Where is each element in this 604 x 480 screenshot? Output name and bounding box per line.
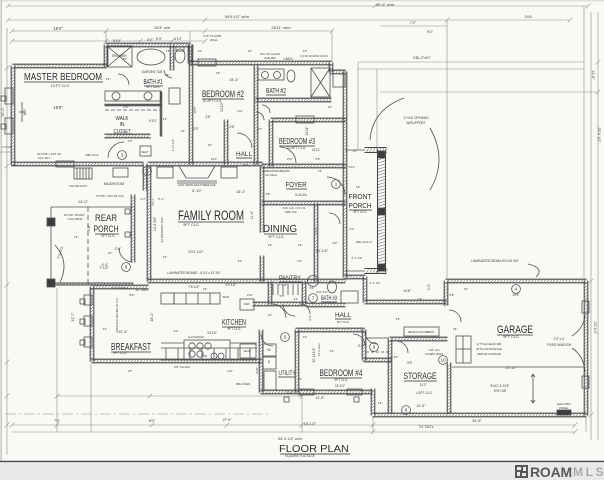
circle note 3 <box>118 151 127 160</box>
svg-text:IN: IN <box>120 122 125 128</box>
wall bath block step right <box>188 45 192 64</box>
room label BEDROOM 4 <box>320 368 363 378</box>
svg-text:2'2": 2'2" <box>174 329 179 333</box>
svg-text:10: 10 <box>440 358 446 363</box>
door arc storage <box>396 341 408 353</box>
tick marks bottom <box>10 394 578 435</box>
svg-text:3'6": 3'6" <box>298 243 303 247</box>
door arc bed4 <box>365 332 377 344</box>
window breakfast 3 <box>84 337 92 347</box>
svg-text:3'-0": 3'-0" <box>308 315 312 321</box>
room label HALL lower <box>335 313 352 319</box>
svg-text:1'6": 1'6" <box>128 139 133 143</box>
svg-text:ABOVE GARAGE: ABOVE GARAGE <box>477 352 501 356</box>
svg-text:6'4": 6'4" <box>156 37 163 41</box>
svg-text:MUDROOM: MUDROOM <box>104 182 124 186</box>
dimension line top second <box>8 19 570 21</box>
dimension line bottom 1 <box>12 424 575 426</box>
svg-text:PANEL: PANEL <box>560 406 569 410</box>
svg-text:11'-6": 11'-6" <box>250 210 254 219</box>
room label BATH 1 <box>144 79 164 86</box>
svg-text:11'-5": 11'-5" <box>315 396 325 400</box>
svg-text:3'6": 3'6" <box>229 125 234 129</box>
attic stairs <box>74 168 92 179</box>
svg-text:BATH #2: BATH #2 <box>266 88 286 95</box>
door arc bed3 <box>280 147 296 163</box>
svg-text:12'-4": 12'-4" <box>118 330 128 334</box>
svg-text:LAMINATED BEAMS - 8 1/2 x 15 3: LAMINATED BEAMS - 8 1/2 x 15 3/4" <box>167 271 220 275</box>
svg-text:9FT CLG: 9FT CLG <box>503 335 519 339</box>
front porch top line <box>345 149 365 151</box>
svg-text:49'-6" w/m: 49'-6" w/m <box>376 2 395 7</box>
svg-text:3'0": 3'0" <box>103 327 108 331</box>
svg-text:4'-0": 4'-0" <box>140 197 146 201</box>
kitchen island <box>184 340 230 360</box>
svg-text:16'4": 16'4" <box>53 26 63 31</box>
svg-text:DBL 2x10 w/: DBL 2x10 w/ <box>356 240 372 244</box>
svg-text:STORAGE: STORAGE <box>404 371 437 382</box>
svg-text:20'6": 20'6" <box>512 293 519 297</box>
title FLOOR PLAN <box>279 443 350 455</box>
svg-text:17'x16' OPENING: 17'x16' OPENING <box>403 116 429 120</box>
svg-text:FAMILY ROOM: FAMILY ROOM <box>178 208 244 223</box>
dimension line top outer <box>8 5 588 7</box>
toilet master wc <box>175 47 185 63</box>
svg-text:4'6": 4'6" <box>205 115 210 119</box>
svg-text:9FT CLG: 9FT CLG <box>334 378 348 382</box>
svg-text:34'-0 1/2" w/m: 34'-0 1/2" w/m <box>278 437 302 441</box>
wall divider master-bed2 <box>189 45 193 164</box>
wall family west <box>147 166 151 281</box>
footer bar <box>0 462 604 480</box>
dimension line right vertical 1 <box>590 12 592 440</box>
svg-text:3'6": 3'6" <box>106 77 111 81</box>
extension line x106 <box>105 31 107 45</box>
svg-text:5'10": 5'10" <box>113 39 122 43</box>
extension line right house vert <box>583 6 585 278</box>
svg-text:6: 6 <box>405 408 408 413</box>
wall pantry west <box>268 282 272 304</box>
svg-text:KITCHEN: KITCHEN <box>222 317 246 327</box>
leader opening arc2 <box>430 128 439 190</box>
svg-text:LITTLE HEAD RM: LITTLE HEAD RM <box>477 342 502 346</box>
svg-text:2'0": 2'0" <box>193 127 198 131</box>
bookcase right <box>221 167 237 178</box>
porch column 2 <box>47 279 55 287</box>
toilet bath2 <box>287 70 295 82</box>
front porch colonnade band <box>378 150 386 272</box>
circle note 9 <box>370 343 379 352</box>
linen cabinet <box>169 88 180 104</box>
door arc bath1 <box>118 74 129 85</box>
extension line front colonnade a <box>357 62 359 150</box>
svg-text:3'0": 3'0" <box>333 241 338 245</box>
wall kitchen-pantry divider <box>253 302 307 306</box>
svg-text:2'8": 2'8" <box>216 71 221 75</box>
svg-text:6'0": 6'0" <box>124 105 129 109</box>
svg-text:3'6": 3'6" <box>378 401 383 405</box>
svg-text:12'10": 12'10" <box>220 101 224 112</box>
svg-text:13 FT CLG: 13 FT CLG <box>51 84 70 88</box>
svg-text:DBL-2"x10": DBL-2"x10" <box>413 56 431 60</box>
walkway arc <box>55 245 64 282</box>
svg-text:GAS RANGE: GAS RANGE <box>188 335 204 339</box>
svg-text:15'9": 15'9" <box>53 105 63 110</box>
wall wic east <box>160 92 161 136</box>
svg-text:DW: DW <box>203 354 208 358</box>
svg-text:5'4": 5'4" <box>394 355 399 359</box>
dimension line top fourth <box>12 40 205 42</box>
fireplace <box>177 166 217 183</box>
dimension line left vertical <box>6 28 8 455</box>
svg-text:PORCH: PORCH <box>349 201 372 210</box>
door arc powder <box>300 304 310 314</box>
room label BREAKFAST <box>111 341 151 353</box>
circle note 1 <box>332 180 341 189</box>
svg-text:6'0": 6'0" <box>149 419 156 423</box>
svg-text:7'6 1/2": 7'6 1/2" <box>188 285 200 289</box>
dimension line bottom mid <box>57 395 302 397</box>
svg-text:ATTIC ENTRANCE: ATTIC ENTRANCE <box>476 347 502 351</box>
room label STORAGE <box>404 371 438 382</box>
extension line x586 bottom <box>585 417 587 432</box>
svg-text:13'-7": 13'-7" <box>71 312 75 322</box>
svg-text:DBL OVEN: DBL OVEN <box>236 382 251 386</box>
svg-text:13'6": 13'6" <box>403 289 412 293</box>
dim line left stub <box>0 151 13 153</box>
door arc closet a <box>256 112 264 120</box>
svg-text:1'6": 1'6" <box>74 235 79 239</box>
sink master 1 <box>112 92 120 100</box>
svg-text:5'0": 5'0" <box>123 57 128 61</box>
extension line garage corner vert <box>446 20 448 278</box>
svg-text:4: 4 <box>515 287 518 292</box>
window master left 1 <box>5 88 13 104</box>
wall bath1 vanity south <box>105 104 161 105</box>
svg-text:15'-4": 15'-4" <box>229 78 239 82</box>
svg-text:15'-2": 15'-2" <box>1 107 5 117</box>
window master left 2 <box>5 118 13 134</box>
wall hall south <box>296 328 365 332</box>
svg-text:10-9FT CLG: 10-9FT CLG <box>203 99 222 103</box>
svg-text:3'4": 3'4" <box>268 313 273 317</box>
svg-text:CASED OPEN: CASED OPEN <box>425 352 443 356</box>
window garage right 1 <box>582 301 589 313</box>
svg-text:25'-6 1/2": 25'-6 1/2" <box>597 127 601 143</box>
scan edge artifact top <box>0 0 604 2</box>
door arc pantry <box>272 304 286 318</box>
footer top border <box>0 460 604 462</box>
room label FOYER <box>286 180 308 189</box>
svg-text:UTILITY: UTILITY <box>279 371 296 377</box>
svg-text:WALL: WALL <box>210 38 218 42</box>
svg-text:4'-11 1/2": 4'-11 1/2" <box>171 139 175 151</box>
scan edge artifact left <box>0 0 2 462</box>
svg-text:12'11": 12'11" <box>312 148 321 152</box>
svg-text:1'10": 1'10" <box>227 369 233 373</box>
svg-text:2'-6": 2'-6" <box>115 247 123 251</box>
svg-text:9'-6": 9'-6" <box>87 224 91 232</box>
circle note 6 <box>402 406 411 415</box>
porch column front 2 <box>378 208 385 215</box>
window master bottom <box>56 161 74 167</box>
circle note 7 <box>309 294 318 303</box>
circle note 4 <box>512 285 521 294</box>
circle note 2 <box>143 167 152 176</box>
svg-text:(4) 3/4 ROUND COLS: (4) 3/4 ROUND COLS <box>300 54 328 58</box>
room label FRONT PORCH <box>349 192 372 201</box>
svg-text:3-2x10's: 3-2x10's <box>295 193 307 197</box>
svg-text:6'0": 6'0" <box>147 38 154 42</box>
svg-text:5'0 5/8 x 12'0 3/4 CLG: 5'0 5/8 x 12'0 3/4 CLG <box>96 194 124 198</box>
wall garage entry left <box>444 281 448 306</box>
cooktop burners <box>189 343 211 357</box>
wall mudroom-family <box>143 164 147 190</box>
front porch top band <box>365 148 387 153</box>
coat closet box <box>113 168 128 177</box>
porch column line <box>50 207 52 285</box>
svg-text:5'2": 5'2" <box>244 163 249 167</box>
svg-text:9'2": 9'2" <box>427 30 434 34</box>
door arc front door <box>327 177 345 195</box>
window garage right 2 <box>582 376 589 388</box>
window label B8 <box>125 209 130 214</box>
svg-text:2'10": 2'10" <box>287 157 293 161</box>
svg-text:DBL 2x6: DBL 2x6 <box>285 210 297 214</box>
svg-text:8'x12' & 12'8": 8'x12' & 12'8" <box>490 384 509 388</box>
room label REAR <box>95 213 117 223</box>
svg-text:1'8": 1'8" <box>356 185 361 189</box>
room label FAMILY ROOM <box>178 208 244 223</box>
kitchen counter north <box>161 293 174 304</box>
svg-text:6'-10": 6'-10" <box>192 189 202 193</box>
svg-text:5'0 1/2" WALL: 5'0 1/2" WALL <box>111 286 129 290</box>
wall bed2 east lower <box>224 120 228 164</box>
svg-text:2'10": 2'10" <box>247 293 253 297</box>
wall garage right <box>584 281 588 415</box>
svg-text:6'8": 6'8" <box>450 293 455 297</box>
wall bath2 west <box>254 66 258 101</box>
wall master left <box>11 66 15 166</box>
wall rear corridor <box>365 300 446 304</box>
svg-text:PANTRY: PANTRY <box>279 275 302 282</box>
door arc mudroom-porch <box>119 248 133 262</box>
svg-text:2'8": 2'8" <box>396 317 401 321</box>
niche bath2 <box>333 70 345 87</box>
svg-text:3'2": 3'2" <box>294 297 299 301</box>
leader opening arc <box>370 98 404 140</box>
door arc master entry <box>108 142 124 158</box>
svg-text:24'6: 24'6 <box>524 14 532 19</box>
window label B1 <box>1 96 6 101</box>
svg-text:1'6": 1'6" <box>318 169 323 173</box>
svg-text:12'0": 12'0" <box>211 157 218 161</box>
svg-text:2'2": 2'2" <box>464 287 469 291</box>
centerline bottom dashdot <box>5 413 270 415</box>
svg-text:FIXED WINDOW: FIXED WINDOW <box>547 343 571 347</box>
svg-text:COLUMNS: COLUMNS <box>67 217 82 221</box>
door arc bath2 <box>262 105 270 113</box>
wall bottom garage-storage <box>373 413 588 417</box>
svg-text:12'-9": 12'-9" <box>416 404 426 408</box>
svg-text:2'0": 2'0" <box>258 127 263 131</box>
kitchen sink <box>211 353 224 359</box>
svg-text:9FT CLG: 9FT CLG <box>268 235 284 239</box>
svg-text:BENCH W/CUBBIES: BENCH W/CUBBIES <box>408 330 433 334</box>
svg-text:3: 3 <box>121 153 124 158</box>
door arc dining opening <box>329 213 340 224</box>
svg-text:FOYER: FOYER <box>286 180 307 189</box>
porch roof dashed <box>87 207 89 285</box>
svg-text:9'10 1/2": 9'10 1/2" <box>316 290 328 294</box>
wall bath2 south <box>256 98 331 102</box>
svg-text:5'-1": 5'-1" <box>158 197 164 201</box>
wall breakfast top <box>91 285 148 289</box>
wall dining west lower <box>260 256 264 281</box>
sink master 2 <box>144 92 152 100</box>
extension line upper right <box>380 91 597 93</box>
svg-text:2'0": 2'0" <box>108 251 113 255</box>
wall dining bottom <box>262 279 346 283</box>
wall bed4 closet south <box>364 358 393 362</box>
svg-text:9FT CLG: 9FT CLG <box>227 327 241 331</box>
wall bed3 top <box>271 118 346 122</box>
svg-text:5'6": 5'6" <box>407 361 412 365</box>
svg-text:13' HIGH: 13' HIGH <box>265 173 277 177</box>
svg-text:GARDEN TUB: GARDEN TUB <box>142 70 163 74</box>
svg-text:15'10": 15'10" <box>207 331 218 335</box>
svg-text:9FT CLG: 9FT CLG <box>353 210 367 214</box>
kitchen cabinets row <box>161 343 257 360</box>
wall ne corner stub <box>331 70 345 74</box>
wall storage west <box>388 339 392 414</box>
svg-text:CAB ABV: CAB ABV <box>264 56 276 60</box>
svg-text:OVH DR: OVH DR <box>494 389 507 393</box>
bed4 closet shelves <box>366 338 389 352</box>
front porch bottom line <box>345 270 365 272</box>
svg-text:23'-1/4": 23'-1/4" <box>593 322 597 335</box>
svg-text:8'-0": 8'-0" <box>287 391 295 395</box>
room label FRONT PORCH 2 <box>349 201 373 210</box>
window bed2 top <box>198 59 216 66</box>
wall breakfast-kitchen bottom <box>92 359 261 363</box>
svg-text:MLS: MLS <box>573 465 604 479</box>
svg-text:LOFT CLG: LOFT CLG <box>416 391 432 395</box>
vanity bath2 <box>258 69 284 80</box>
svg-text:ROAM: ROAM <box>530 464 572 480</box>
extension line porch roof 1 <box>358 61 584 63</box>
wall east mid <box>343 166 347 278</box>
bookcase left <box>157 167 173 178</box>
svg-text:CLG 9FT: CLG 9FT <box>38 156 51 160</box>
wall wic south <box>105 134 150 138</box>
svg-text:1'8": 1'8" <box>453 327 458 331</box>
electric panel <box>557 410 571 415</box>
circle note 8 <box>122 263 131 272</box>
svg-text:2'6": 2'6" <box>328 105 333 109</box>
leader fixed window a <box>572 315 585 336</box>
svg-text:2'2": 2'2" <box>181 129 186 133</box>
svg-text:ARTIFICIAL BEAMS 16" O.C.: ARTIFICIAL BEAMS 16" O.C. <box>115 297 119 333</box>
svg-text:2'8": 2'8" <box>128 369 133 373</box>
wall corridor south bench <box>390 337 447 341</box>
window breakfast 1 <box>84 295 92 305</box>
door arc master wc <box>164 70 172 78</box>
svg-text:9FT CLG: 9FT CLG <box>146 85 160 89</box>
wall bath1-wc divider <box>170 45 174 70</box>
svg-text:5'8": 5'8" <box>316 157 321 161</box>
wall mudroom west <box>131 195 135 262</box>
svg-text:3'1": 3'1" <box>350 227 355 231</box>
svg-text:10'6": 10'6" <box>193 107 197 114</box>
vanity master counter <box>105 91 161 101</box>
closet shelf dashes <box>105 109 160 111</box>
svg-text:2'4" x 6': 2'4" x 6' <box>553 337 564 341</box>
svg-text:2: 2 <box>146 169 149 174</box>
shower bath2 <box>311 68 330 97</box>
roam logo icon <box>515 465 528 478</box>
svg-text:3'2": 3'2" <box>163 255 168 259</box>
svg-text:5'-0": 5'-0" <box>358 344 364 348</box>
wall dining west upper <box>260 204 264 233</box>
svg-text:1'6": 1'6" <box>203 287 208 291</box>
svg-text:7'4": 7'4" <box>54 419 61 423</box>
wall pantry-powder divider <box>302 282 306 304</box>
svg-text:15'4" w/h: 15'4" w/h <box>154 25 170 30</box>
window bed4 bottom 2 <box>347 389 362 395</box>
porch column front 3 <box>378 264 385 271</box>
attic ladder garage <box>456 336 471 363</box>
svg-text:9FT CLG: 9FT CLG <box>113 351 127 355</box>
svg-text:1'8": 1'8" <box>166 49 171 53</box>
svg-text:4'2": 4'2" <box>163 117 168 121</box>
wall east upper <box>343 72 347 166</box>
sink bath2 2 <box>274 72 281 79</box>
svg-text:MASTER BEDROOM: MASTER BEDROOM <box>24 72 102 83</box>
sink bath2 1 <box>262 72 269 79</box>
extension line x57 porch <box>56 288 58 432</box>
wall ne corner step <box>329 63 333 73</box>
room label UTILITY <box>278 371 296 377</box>
svg-text:BAR: BAR <box>223 295 230 299</box>
pantry shelves <box>273 284 298 295</box>
dimension line top third <box>12 30 332 32</box>
dimension line right vertical 2 <box>597 12 599 440</box>
svg-text:5'0": 5'0" <box>238 259 243 263</box>
wall master bottom <box>12 162 143 166</box>
wall utility left <box>259 330 263 393</box>
room label GARAGE <box>497 324 533 336</box>
svg-text:5: 5 <box>284 335 287 340</box>
svg-text:3'0": 3'0" <box>418 297 423 301</box>
tick marks left <box>5 66 10 428</box>
svg-text:DINING: DINING <box>263 224 297 235</box>
svg-text:8'6": 8'6" <box>130 293 135 297</box>
svg-text:11'10": 11'10" <box>335 384 346 388</box>
svg-text:BEDROOM #4: BEDROOM #4 <box>320 368 363 378</box>
extension line x373 bottom <box>372 417 374 432</box>
svg-text:REF: REF <box>244 302 250 306</box>
wall foyer-dining divider <box>260 166 264 204</box>
svg-text:6'10": 6'10" <box>149 119 157 123</box>
label walk in closet <box>113 116 132 135</box>
room label MASTER BEDROOM <box>24 72 103 83</box>
svg-text:W/SUPPORT: W/SUPPORT <box>406 121 425 125</box>
svg-text:7'2": 7'2" <box>410 21 417 25</box>
svg-text:2'10": 2'10" <box>349 165 356 169</box>
room label BATH 2 <box>266 88 286 95</box>
door arc garage entry <box>449 310 461 322</box>
